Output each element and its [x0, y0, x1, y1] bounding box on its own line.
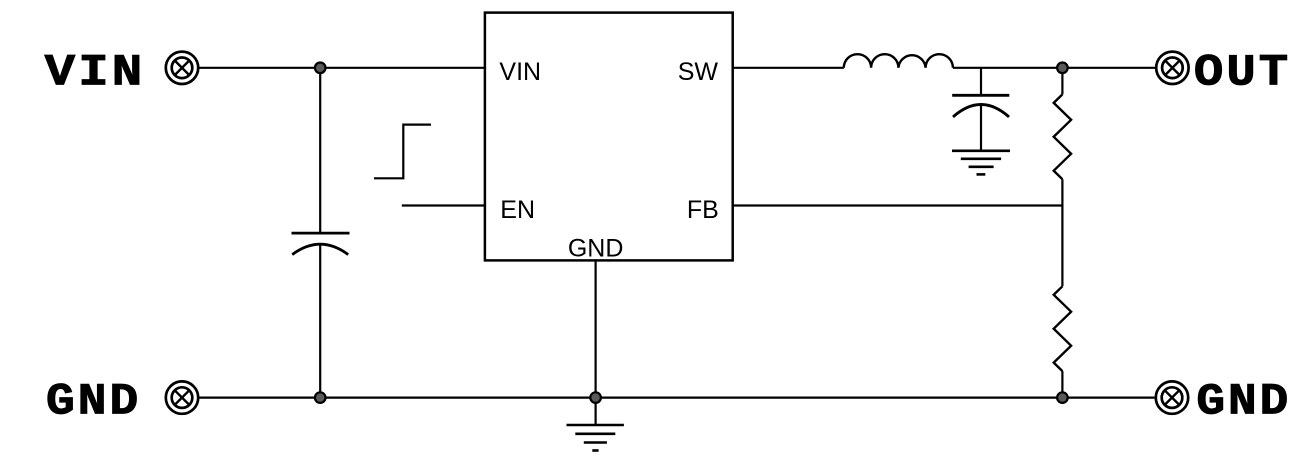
node input cap to rail junction: [315, 392, 326, 403]
capacitor C2 bottom lead wire: [980, 105, 982, 151]
port label GND right: [1196, 376, 1291, 427]
svg-text:VIN: VIN: [499, 58, 541, 86]
capacitor C1 bottom lead wire: [319, 244, 321, 397]
terminal GND right (circled-X): [1156, 381, 1188, 413]
svg-text:OUT: OUT: [1194, 48, 1291, 98]
wire U1 SW pin to inductor L1: [733, 67, 844, 69]
wire EN input to U1 EN pin: [402, 204, 485, 206]
ground symbol (output cap): [952, 151, 1010, 175]
terminal GND left (circled-X): [166, 381, 198, 413]
enable step-source symbol: [374, 125, 431, 179]
inductor L1: [844, 54, 953, 68]
capacitor C1 (input, polarized): [292, 233, 350, 255]
ground rail wire: [199, 397, 1155, 399]
svg-text:GND: GND: [1196, 376, 1291, 427]
capacitor C2 (output, polarized): [952, 95, 1009, 117]
resistor R1 top lead: [1061, 68, 1063, 95]
node R2-ground rail junction: [1057, 392, 1068, 403]
svg-text:EN: EN: [500, 196, 535, 224]
node GND pin junction: [590, 392, 601, 403]
svg-text:FB: FB: [687, 196, 719, 224]
capacitor C2 top lead wire: [980, 68, 982, 96]
regulator U1 box: [485, 13, 733, 261]
terminal OUT (circled-X): [1156, 52, 1188, 84]
resistor R1 (upper divider): [1054, 94, 1071, 179]
svg-text:GND: GND: [46, 376, 141, 427]
resistor R2 (lower divider): [1054, 286, 1071, 371]
node OUT junction: [1057, 63, 1068, 74]
wire U1 FB pin to divider node: [733, 204, 1063, 206]
wire VIN terminal to U1 VIN pin: [199, 67, 485, 69]
wire inductor to OUT node: [953, 67, 1156, 69]
wire U1 GND pin to ground rail: [594, 260, 596, 425]
terminal VIN (circled-X): [166, 52, 198, 84]
svg-text:SW: SW: [678, 58, 719, 86]
port label OUT: [1194, 48, 1291, 98]
port label VIN: [45, 48, 146, 98]
ground symbol (below rail): [567, 425, 624, 451]
resistor R2 bottom lead: [1061, 371, 1063, 398]
svg-text:GND: GND: [568, 234, 624, 262]
node VIN junction: [315, 63, 326, 74]
capacitor C1 top lead wire: [319, 68, 321, 233]
svg-text:VIN: VIN: [45, 48, 146, 98]
port label GND left: [46, 376, 141, 427]
wire R1 bottom to FB node and R2 top: [1061, 179, 1063, 286]
